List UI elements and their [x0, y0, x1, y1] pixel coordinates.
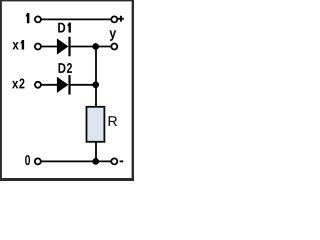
node 1 label — [25, 13, 29, 23]
terminal x2 — [35, 82, 41, 88]
wire bottom rail — [38, 160, 115, 162]
wire top rail — [38, 18, 114, 20]
wire x1 to D1 — [38, 46, 58, 48]
terminal - — [111, 158, 117, 164]
node x2 label — [12, 78, 24, 88]
plus label — [118, 16, 124, 22]
diode D1 — [57, 37, 71, 57]
resistor R label — [109, 116, 117, 126]
wire vertical bus y node to resistor — [95, 47, 97, 109]
wire resistor to bottom rail — [95, 141, 97, 161]
terminal + — [111, 16, 117, 22]
junction dot (D2/bus) — [92, 81, 99, 88]
junction dot (y node) — [92, 43, 99, 50]
terminal x1 — [35, 44, 41, 50]
node y label — [109, 30, 116, 40]
wire x2 to D2 — [38, 84, 58, 86]
junction dot (bottom) — [92, 158, 99, 165]
wire D2 to bus — [71, 84, 97, 86]
diode D1 label — [58, 23, 71, 33]
diode D2 — [57, 75, 71, 95]
wire D1 to node y — [71, 46, 115, 48]
resistor R — [87, 107, 105, 142]
terminal 1 — [35, 16, 41, 22]
terminal 0 — [35, 158, 41, 164]
node x1 label — [12, 40, 24, 50]
diode D2 label — [59, 63, 72, 73]
node 0 label — [25, 155, 30, 165]
minus label — [120, 160, 124, 162]
border frame — [0, 0, 134, 181]
terminal y — [111, 44, 117, 50]
